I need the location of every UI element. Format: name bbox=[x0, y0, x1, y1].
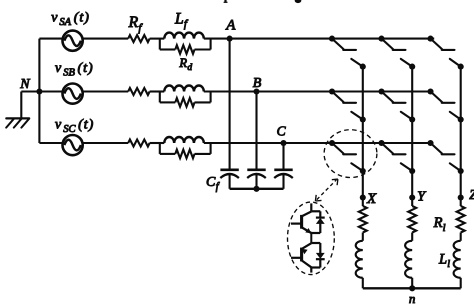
wire: output column Z bbox=[460, 67, 462, 198]
switch SBX bbox=[329, 88, 366, 122]
node Z bbox=[458, 188, 474, 203]
switch SAX bbox=[329, 36, 366, 70]
switch SBY bbox=[378, 88, 415, 122]
wire: module middle link bbox=[311, 242, 320, 244]
wire: phase B Rf-to-combo bbox=[150, 90, 165, 92]
svg-text:n: n bbox=[409, 291, 416, 304]
resistor (load Y) bbox=[408, 206, 416, 233]
wire: phase B bus bbox=[204, 90, 434, 92]
resistor (load X) bbox=[359, 206, 367, 233]
inductor (phase B filter L) bbox=[164, 85, 204, 91]
inductor Ll (phase Z) bbox=[438, 241, 461, 278]
resistor Rd (phase A, damping) bbox=[160, 39, 211, 73]
dashed highlight circle around switch SCX bbox=[324, 130, 377, 178]
resistor Rl (phase Z) bbox=[433, 206, 465, 234]
wire: load X R-to-L bbox=[362, 233, 364, 241]
wire: phase A neutral-to-source bbox=[39, 38, 62, 40]
wire: phase C Rf-to-combo bbox=[150, 142, 165, 144]
svg-text:X: X bbox=[366, 191, 377, 207]
wire: phase C source-to-Rf bbox=[82, 142, 128, 144]
switch SAZ bbox=[427, 36, 463, 70]
resistor (phase C damping) bbox=[160, 143, 211, 158]
wire: phase A source-to-Rf bbox=[82, 38, 128, 40]
inductor (load X) bbox=[356, 241, 363, 278]
capacitor Cf3 (phase C) bbox=[274, 170, 293, 189]
wire: Z node to load resistor bbox=[460, 198, 462, 207]
wire: X node to load resistor bbox=[362, 198, 364, 207]
wire: phase C bus bbox=[204, 142, 434, 144]
switch SCY bbox=[378, 140, 415, 174]
capacitor Cf1 (phase A) bbox=[220, 170, 239, 189]
switch SAY bbox=[378, 36, 415, 70]
inductor (load Y) bbox=[405, 241, 412, 278]
ground bbox=[6, 118, 29, 127]
wire: node A down to filter cap bbox=[229, 39, 231, 169]
wire: phase A bus bbox=[204, 38, 434, 40]
transistor Q2 (lower IGBT) bbox=[291, 243, 311, 272]
node N bbox=[19, 77, 42, 95]
resistor Rf (phase A) bbox=[128, 14, 150, 42]
node C bbox=[277, 124, 287, 147]
wire: load Y R-to-L bbox=[411, 233, 413, 241]
diode D2 (lower, anti-parallel) bbox=[311, 243, 324, 268]
node Y bbox=[409, 190, 427, 205]
capacitor Cf2 (phase B) bbox=[247, 170, 266, 189]
node n bbox=[409, 285, 416, 304]
node A bbox=[225, 17, 236, 41]
svg-text:B: B bbox=[253, 76, 262, 91]
svg-text:N: N bbox=[19, 77, 30, 92]
wire: node B down to filter cap bbox=[255, 92, 257, 169]
source vSA(t) bbox=[51, 10, 89, 50]
dashed double-headed arrow bbox=[315, 179, 338, 201]
resistor (phase B filter R) bbox=[128, 88, 149, 95]
wire: node C down to filter cap bbox=[282, 143, 284, 169]
switch SCX bbox=[329, 140, 366, 174]
cropped caption fragment "g" bbox=[295, 0, 302, 3]
cropped caption fragment "p" bbox=[224, 0, 228, 3]
wire: load star bus bbox=[363, 287, 461, 289]
node X bbox=[360, 191, 377, 207]
wire: load Z to star bus bbox=[460, 278, 462, 289]
source vSB(t) bbox=[55, 61, 93, 104]
wire: load Y to star bus bbox=[411, 278, 413, 289]
switch SBZ bbox=[427, 88, 463, 122]
wire: phase B source-to-Rf bbox=[82, 90, 128, 92]
wire: output column Y bbox=[411, 67, 413, 198]
dashed ellipse: bidirectional switch detail bbox=[288, 202, 335, 275]
wire: phase B neutral-to-source bbox=[39, 90, 62, 92]
wire: phase A Rf-to-combo bbox=[150, 38, 165, 40]
svg-text:Z: Z bbox=[469, 188, 474, 203]
wire: module top lead bbox=[310, 203, 312, 211]
wire: capacitor star bus bbox=[230, 186, 284, 192]
wire: Y node to load resistor bbox=[411, 198, 413, 207]
resistor (phase C filter R) bbox=[128, 140, 149, 147]
svg-text:A: A bbox=[225, 17, 236, 33]
node B bbox=[253, 76, 262, 95]
wire: load X to star bus bbox=[362, 278, 364, 289]
switch SCZ bbox=[427, 140, 463, 174]
transistor Q1 (upper IGBT) bbox=[291, 212, 311, 244]
svg-text:C: C bbox=[277, 124, 287, 139]
inductor (phase C filter L) bbox=[164, 137, 204, 143]
wire: phase C neutral-to-source bbox=[39, 142, 62, 144]
source vSC(t) bbox=[55, 117, 94, 155]
inductor Lf (phase A) bbox=[164, 11, 204, 39]
diode D1 (upper, anti-parallel) bbox=[311, 211, 324, 233]
wire: load Z R-to-L bbox=[460, 233, 462, 241]
wire: neutral vertical bus bbox=[38, 39, 40, 143]
wire: output column X bbox=[362, 67, 364, 198]
label Cf bbox=[206, 175, 220, 193]
resistor (phase B damping) bbox=[160, 92, 211, 107]
wire: N to ground bbox=[21, 92, 39, 119]
